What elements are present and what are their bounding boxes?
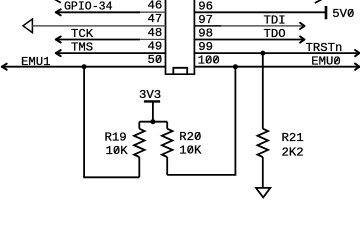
svg-text:R20: R20 <box>179 130 201 144</box>
svg-text:10K: 10K <box>179 144 202 158</box>
arrowhead TDO right <box>300 36 304 42</box>
svg-text:TDI: TDI <box>264 14 286 28</box>
wire pin100 right (EMU0) <box>194 66 359 68</box>
power tap 5V0 <box>325 6 328 19</box>
arrowhead GPIO-34 left <box>56 9 61 15</box>
wire pin48 left (TCK) <box>56 39 140 41</box>
ground symbol <box>256 188 270 198</box>
wire pin50 left (EMU1) <box>2 66 166 68</box>
junction EMU0/R20 <box>233 64 238 69</box>
svg-text:GPIO-34: GPIO-34 <box>64 0 113 13</box>
wire pin46 left (GPIO-34) <box>56 11 140 13</box>
svg-text:3V3: 3V3 <box>139 88 161 102</box>
svg-text:47: 47 <box>148 12 163 26</box>
cropped arrowhead fragment top-left <box>55 0 61 3</box>
svg-text:R21: R21 <box>282 131 304 145</box>
wire pin97 right (TDI, gray) <box>194 25 221 27</box>
junction 3V3 rail <box>150 119 155 124</box>
svg-text:48: 48 <box>148 26 163 40</box>
svg-text:46: 46 <box>148 0 163 13</box>
svg-text:98: 98 <box>198 27 213 41</box>
svg-text:TCK: TCK <box>71 27 94 41</box>
junction TRSTn/R21 <box>260 51 265 56</box>
cropped arrowhead fragment top-right <box>315 0 322 3</box>
svg-text:2K2: 2K2 <box>282 145 304 159</box>
svg-text:TRSTn: TRSTn <box>306 41 343 55</box>
svg-text:EMU1: EMU1 <box>21 55 51 69</box>
svg-text:50: 50 <box>148 53 163 67</box>
port triangle pin47 <box>23 19 32 33</box>
wire pin98 right (TDO) <box>194 39 303 41</box>
svg-text:49: 49 <box>148 39 163 53</box>
resistor R21 <box>257 53 268 188</box>
connector key notch <box>173 68 187 74</box>
connector U1 body <box>165 0 196 74</box>
wire EMU0 to R20 bottom <box>167 67 235 175</box>
svg-text:5V0: 5V0 <box>332 7 354 21</box>
svg-text:99: 99 <box>198 40 213 54</box>
junction EMU1/R19 <box>82 64 87 69</box>
svg-text:R19: R19 <box>105 131 127 145</box>
wire pin49 left (TMS) <box>56 52 166 54</box>
arrowhead EMU0 right <box>355 64 359 70</box>
svg-text:TMS: TMS <box>71 41 93 55</box>
svg-text:TDO: TDO <box>264 27 286 41</box>
wire 3V3 stem <box>152 101 154 121</box>
wire EMU1 to R19 bottom <box>84 67 139 178</box>
arrowhead TRSTn right <box>355 50 359 56</box>
wire pin47 left (gray) <box>32 25 165 27</box>
resistor R20 <box>162 122 173 175</box>
arrowhead TDI right <box>300 23 304 29</box>
svg-text:10K: 10K <box>106 144 129 158</box>
arrowhead TCK left <box>56 37 61 43</box>
wire pin99 right (TRSTn) <box>194 52 359 54</box>
svg-text:97: 97 <box>198 13 213 27</box>
wire pin96 right to 5V0 <box>194 11 326 13</box>
arrowhead EMU1 left <box>2 64 7 70</box>
svg-text:100: 100 <box>198 54 220 68</box>
resistor R19 <box>134 122 145 178</box>
wire rail R19-R20 tops <box>139 121 167 123</box>
svg-text:96: 96 <box>198 0 213 13</box>
arrowhead TMS left <box>56 50 61 56</box>
